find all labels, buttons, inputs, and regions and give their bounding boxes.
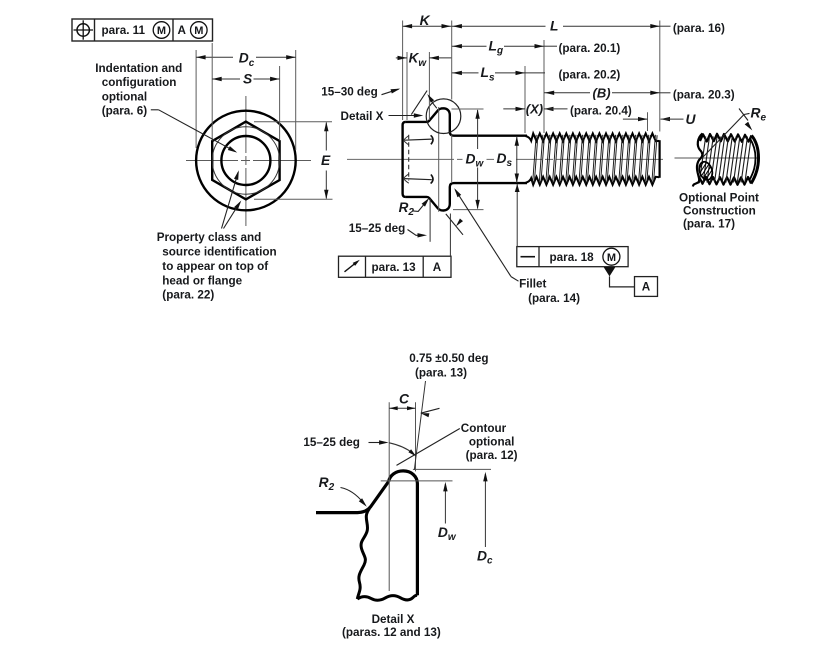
detail X: bearing surface and R2 fillet [316, 482, 389, 513]
svg-text:(para. 20.4): (para. 20.4) [570, 105, 632, 118]
svg-text:U: U [686, 112, 697, 127]
svg-text:(para. 20.3): (para. 20.3) [673, 88, 735, 101]
svg-text:0.75 ±0.50 deg: 0.75 ±0.50 deg [409, 352, 488, 365]
svg-text:E: E [321, 153, 331, 168]
svg-text:Property class and: Property class and [157, 231, 262, 244]
arrow to 0.75 deg line [421, 408, 440, 413]
end view centerline horizontal [186, 160, 311, 162]
optional point hatched section [692, 158, 730, 182]
thread helix lines [533, 135, 658, 184]
svg-text:Construction: Construction [683, 204, 756, 217]
15-25 deg angle indicator arrows [446, 214, 463, 235]
svg-text:M: M [157, 25, 166, 37]
detail X: 0.75 deg tilted line [414, 381, 425, 470]
svg-text:K: K [420, 13, 431, 28]
detail X: flange corner dome and edge [389, 471, 418, 595]
svg-text:Fillet: Fillet [519, 278, 546, 291]
inscribed thin circle of hexagon [212, 127, 279, 194]
dimension Lg [543, 40, 545, 133]
leader arrows for para. 22 label [222, 172, 239, 228]
threads [526, 133, 660, 141]
extension line for 15-25 deg [429, 199, 431, 242]
svg-text:(para. 12): (para. 12) [466, 449, 518, 462]
bolt centerline [347, 158, 664, 160]
svg-text:Indentation and: Indentation and [95, 62, 182, 75]
svg-text:(paras. 12 and 13): (paras. 12 and 13) [342, 626, 441, 639]
svg-text:para. 11: para. 11 [102, 24, 146, 37]
dimension Dw (flange bearing dia) [452, 108, 484, 110]
svg-text:A: A [433, 261, 442, 274]
svg-text:(para. 6): (para. 6) [102, 105, 148, 118]
hexagon of head [212, 122, 279, 200]
svg-text:configuration: configuration [102, 76, 177, 89]
head left edge (top of head) [403, 122, 406, 197]
thread end face [658, 140, 660, 178]
flange outer circle (Dc) [196, 111, 296, 211]
svg-text:(para. 14): (para. 14) [528, 292, 580, 305]
svg-text:15–25 deg: 15–25 deg [349, 222, 406, 235]
hex facet chevron arcs [404, 136, 409, 145]
svg-text:Detail X: Detail X [341, 110, 384, 123]
svg-text:L: L [550, 19, 558, 34]
svg-text:optional: optional [469, 436, 514, 449]
connector from para.18 frame to shank [516, 184, 518, 247]
hex facet lines [404, 139, 432, 140]
dimension U [647, 112, 649, 131]
dimension (B) [544, 92, 590, 94]
dimension Kw [406, 52, 408, 120]
svg-text:C: C [399, 392, 410, 407]
dimension C [389, 407, 415, 409]
detail X: bottom break line [357, 595, 417, 600]
optional point construction centerline [675, 157, 760, 159]
dimension (X) [503, 108, 525, 110]
svg-text:head or flange: head or flange [162, 274, 242, 287]
end view centerline vertical [245, 96, 247, 226]
leader for para. 6 label [151, 109, 159, 111]
dimension E [254, 121, 332, 123]
svg-text:15–25 deg: 15–25 deg [303, 436, 360, 449]
inner bold circle (indentation) [221, 136, 270, 185]
optional point helix lines [699, 137, 751, 183]
svg-text:to appear on top of: to appear on top of [162, 260, 268, 273]
feature control frame: slope para. 13 | A [339, 256, 452, 277]
dimension K [402, 21, 404, 121]
fillet leader [455, 190, 511, 277]
svg-text:optional: optional [102, 91, 147, 104]
svg-text:(X): (X) [526, 101, 543, 116]
dimension Dw (detail) [444, 484, 446, 524]
detail X: left break line [357, 509, 369, 600]
dimension Dc (detail) [484, 474, 486, 547]
svg-text:Optional Point: Optional Point [679, 192, 759, 205]
dimension L [451, 21, 453, 100]
svg-text:A: A [642, 281, 651, 294]
detail X: tangency line [388, 402, 390, 591]
datum feature symbol A [604, 267, 616, 277]
detail X: bearing plane line [381, 480, 453, 482]
dimension S [211, 43, 213, 141]
svg-text:(para. 20.1): (para. 20.1) [559, 42, 621, 55]
hidden dashed line in head [408, 135, 410, 181]
svg-text:Detail X: Detail X [372, 613, 415, 626]
svg-text:Contour: Contour [461, 422, 507, 435]
feature control frame: straightness para. 18 (M) [517, 247, 628, 267]
15-30 deg angle reference line and arc arrow [411, 91, 427, 115]
svg-text:source identification: source identification [162, 246, 276, 259]
svg-text:S: S [243, 71, 253, 86]
dimension Dc [195, 50, 197, 148]
svg-text:15–30 deg: 15–30 deg [321, 86, 378, 99]
angle arc with arrow (detail) [389, 443, 413, 454]
optional point threads bottom zigzag [699, 177, 751, 185]
thin vertical line at flange tangent [438, 107, 440, 212]
svg-text:para. 18: para. 18 [550, 251, 595, 264]
svg-text:M: M [607, 252, 616, 264]
svg-text:A: A [178, 24, 187, 37]
detail X indicator circle [426, 99, 461, 134]
detail X: C right extension line [415, 402, 417, 471]
svg-text:para. 13: para. 13 [372, 261, 417, 274]
optional point left break line [693, 134, 703, 187]
svg-text:(para. 22): (para. 22) [162, 288, 214, 301]
optional point threads top zigzag [700, 134, 752, 142]
hex flange head side view outline [406, 108, 527, 135]
dimension Ls [524, 66, 526, 133]
svg-text:(para. 16): (para. 16) [673, 22, 725, 35]
svg-text:(para. 17): (para. 17) [683, 217, 735, 230]
feature control frame: position para. 11 (M) | A (M) [72, 19, 213, 41]
svg-text:(B): (B) [593, 85, 611, 100]
svg-text:(para. 20.2): (para. 20.2) [559, 69, 621, 82]
svg-text:M: M [194, 25, 203, 37]
connector from para.13 frame to flange face [449, 214, 451, 257]
optional point end radius [751, 135, 759, 183]
detail X: flange top surface line [413, 468, 491, 470]
dimension Ds (shank dia) [516, 136, 518, 183]
svg-text:(para. 13): (para. 13) [415, 366, 467, 379]
